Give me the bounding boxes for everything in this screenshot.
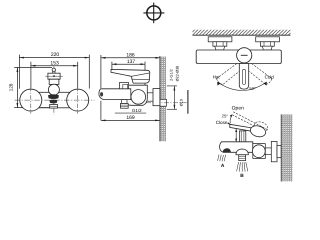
wall escutcheon (view 2) [153, 89, 160, 106]
solid lever (closed) [230, 124, 252, 131]
dim 128 bottom extension line [14, 107, 49, 109]
right union vertical centerline [77, 87, 79, 114]
dim 186 line [101, 57, 160, 59]
lever slot [242, 69, 245, 84]
dim Ø70 vertical (escutcheon) [167, 86, 188, 114]
svg-text:G1/2: G1/2 [132, 108, 142, 113]
valve body (side) [124, 85, 147, 105]
cartridge lower collar [49, 79, 59, 84]
ceiling wall hatch [193, 30, 291, 35]
ball dash [241, 54, 248, 56]
dim 128 top extension line [14, 66, 52, 68]
handle lever (side) [111, 69, 150, 83]
right mount flange [256, 37, 280, 42]
lever/skirt separation line [132, 73, 150, 76]
dim 153 extension line right [77, 62, 79, 88]
svg-text:Cold: Cold [265, 74, 275, 79]
svg-text:A: A [221, 163, 225, 169]
pipe to wall [147, 92, 153, 94]
svg-text:Ø10: Ø10 [180, 99, 184, 106]
left union vertical centerline [30, 87, 32, 114]
svg-text:128: 128 [8, 83, 13, 91]
open/close arc with arrows [230, 116, 231, 123]
projection symbol (first-angle) [143, 3, 164, 24]
right mount neck [262, 46, 272, 50]
svg-text:Open: Open [232, 106, 244, 112]
handle ball (top) [237, 48, 252, 63]
cartridge stem [53, 71, 55, 73]
cap center dot [53, 75, 55, 77]
svg-text:B: B [240, 173, 244, 179]
wall surface line [193, 34, 291, 36]
dim 169 line [101, 119, 160, 121]
stroke double arrow [235, 129, 237, 142]
dim 186/169 left extension line [100, 55, 102, 88]
svg-text:Hot: Hot [213, 74, 221, 79]
right mount nut [260, 42, 274, 46]
dim 153 line [31, 65, 78, 67]
dashed swivel lever right (Cold) [248, 64, 272, 85]
inlet pipe through wall [160, 99, 167, 106]
water drops A [218, 155, 226, 162]
valve body (view 4) [253, 144, 265, 159]
shower adapter [239, 155, 246, 161]
dashed swivel lever left (Hot) [217, 64, 241, 85]
cartridge (view 4) [239, 131, 245, 142]
dashed open lever [232, 112, 269, 133]
wall section (view 4) [281, 115, 292, 182]
body tube between unions [23, 92, 85, 108]
center column vertical centerline [53, 66, 55, 114]
wall escutcheon (view 4) [271, 141, 277, 161]
inlet centerline [146, 102, 187, 104]
left mount flange [208, 37, 232, 42]
spout mouth (view 4) [223, 148, 231, 152]
wall face line [159, 56, 161, 141]
handle ball shading band [48, 94, 59, 99]
dim Ø10 second vertical [187, 90, 189, 114]
dim 220 line [19, 57, 89, 59]
outlet aerator [50, 105, 58, 109]
swivel arc 50 deg [218, 82, 267, 90]
shower outlet dome (view 4) [236, 149, 249, 155]
water spray B [237, 162, 248, 172]
spout mouth [100, 92, 103, 96]
svg-text:25°: 25° [222, 113, 229, 118]
valve escutcheon circle [131, 90, 146, 105]
svg-text:2-G1/2: 2-G1/2 [170, 69, 174, 81]
wall section (view 2) [160, 57, 166, 142]
dim 220 extension line left [18, 55, 20, 89]
svg-text:Close: Close [216, 120, 228, 125]
cap centerline [45, 75, 63, 77]
handle ball knob [48, 84, 59, 95]
dim 137 line [112, 63, 145, 65]
valve circle (view 4) [252, 145, 265, 158]
wall face line (view 4) [280, 115, 282, 182]
dim 153 extension line left [30, 62, 32, 88]
svg-text:153: 153 [50, 60, 59, 66]
svg-text:137: 137 [127, 59, 136, 65]
left union flange [20, 89, 42, 111]
faucet body (view 4) [220, 142, 253, 153]
faucet body (top view) [196, 50, 281, 64]
dim 137 right extension [144, 62, 146, 95]
svg-text:186: 186 [126, 52, 135, 58]
spout mouth dark band [49, 100, 57, 104]
dim 128 line [16, 67, 18, 107]
lever knob ellipse [249, 124, 267, 138]
skirt step line [132, 78, 149, 81]
cap screw on cartridge [52, 68, 55, 71]
cartridge cap [48, 73, 60, 79]
spout (side) [99, 89, 131, 100]
svg-text:220: 220 [51, 52, 60, 58]
solid lever (top view, pointing down) [239, 64, 248, 90]
svg-text:169: 169 [126, 115, 135, 121]
svg-text:50°: 50° [249, 86, 256, 91]
shower hose outlet [122, 100, 127, 104]
label G1/2 leader [115, 112, 146, 114]
dim 220 extension line right [88, 55, 90, 89]
diverter knob [119, 83, 128, 91]
horizontal centerline [15, 99, 95, 101]
left mount nut [213, 42, 227, 46]
left mount neck [215, 46, 225, 50]
dim 137 left extension [111, 62, 113, 69]
svg-text:Ø22-Ø38: Ø22-Ø38 [176, 66, 180, 82]
right union flange [67, 89, 89, 111]
pipe to wall (view 4) [265, 147, 271, 149]
